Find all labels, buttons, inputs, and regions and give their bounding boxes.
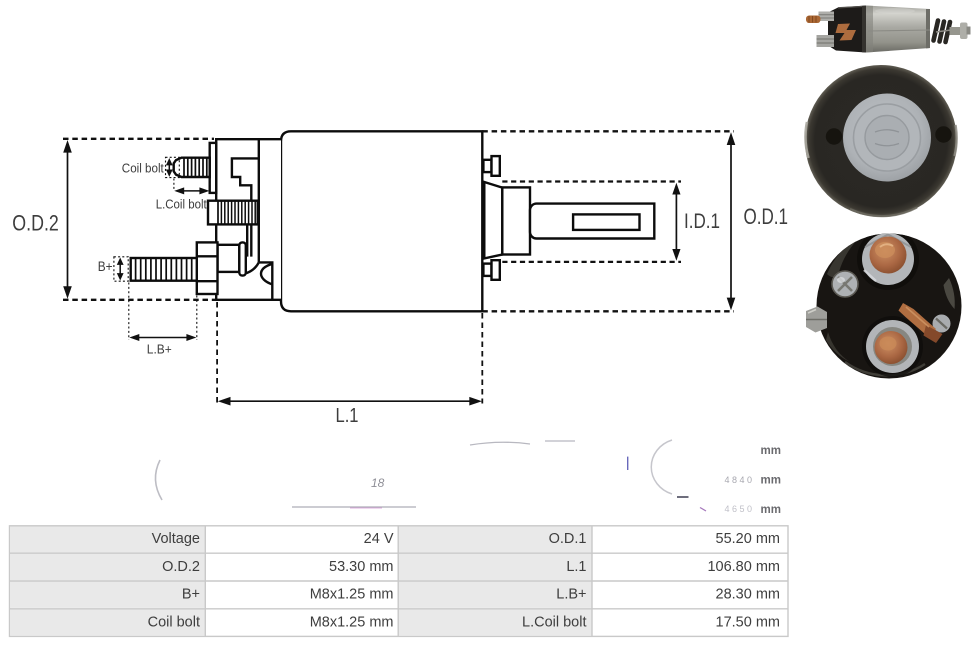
plunger bolt tab top wide xyxy=(492,156,500,176)
coil bolt stud Coil bolt xyxy=(174,158,210,177)
svg-text:mm: mm xyxy=(761,445,781,457)
L.B+ extension dotted left xyxy=(128,283,130,341)
cap inner step shape xyxy=(232,158,259,200)
housing shadow around top terminal xyxy=(857,228,919,290)
inner conductor bar xyxy=(247,224,251,256)
table texts xyxy=(148,531,780,630)
table grid lines xyxy=(10,526,789,637)
bottom terminal copper xyxy=(875,331,908,364)
housing highlight right xyxy=(944,278,955,309)
svg-text:B+: B+ xyxy=(98,259,113,274)
L.Coil bolt thread block xyxy=(208,201,258,225)
disc rim highlight bottom xyxy=(850,208,917,217)
disc face ring xyxy=(854,104,921,171)
svg-text:L.1: L.1 xyxy=(336,405,359,427)
svg-text:Voltage: Voltage xyxy=(152,531,200,547)
plunger shaft xyxy=(530,204,654,239)
svg-text:Coil bolt: Coil bolt xyxy=(148,614,200,630)
svg-text:M8x1.25 mm: M8x1.25 mm xyxy=(310,587,394,603)
thread block hatching xyxy=(221,201,255,224)
right small screw xyxy=(933,315,951,333)
dimension O.D.2 bottom dashed line xyxy=(63,299,215,301)
disc outer rim xyxy=(805,65,957,217)
svg-text:55.20 mm: 55.20 mm xyxy=(716,531,780,547)
svg-text:mm: mm xyxy=(761,504,781,516)
svg-text:4 8 4 0: 4 8 4 0 xyxy=(724,475,752,485)
solenoid main body cylinder xyxy=(281,131,482,311)
plunger bolt tab bottom wide xyxy=(492,260,500,280)
photo1 bottom bolt xyxy=(817,35,835,47)
top terminal silver nut xyxy=(862,233,914,285)
L.Coil bolt extension dotted right xyxy=(209,179,211,191)
svg-text:106.80 mm: 106.80 mm xyxy=(707,559,780,575)
B+ threaded stud xyxy=(131,258,197,281)
table outer background xyxy=(10,526,789,637)
copper strap xyxy=(899,303,937,338)
front cap housing outline xyxy=(216,139,281,300)
housing highlight upper-left xyxy=(827,239,858,277)
plunger bolt tab top narrow xyxy=(483,160,491,172)
svg-text:4 6 5 0: 4 6 5 0 xyxy=(724,504,752,514)
housing circle xyxy=(817,234,962,379)
coil bolt dotted box xyxy=(166,157,180,177)
faint underline xyxy=(292,506,416,508)
svg-text:18: 18 xyxy=(371,476,385,490)
housing bottom rim highlight xyxy=(845,362,925,375)
svg-text:L.Coil bolt: L.Coil bolt xyxy=(522,614,586,630)
arrow L.Coil bolt xyxy=(180,190,203,192)
faint mm texts xyxy=(761,445,781,516)
photo1 copper link xyxy=(836,24,857,41)
label cell backgrounds column 3 xyxy=(398,527,592,553)
photo1 black cap xyxy=(828,6,866,53)
svg-text:L.B+: L.B+ xyxy=(556,587,586,603)
arrow L.B+ xyxy=(137,337,189,339)
svg-text:M8x1.25 mm: M8x1.25 mm xyxy=(310,614,394,630)
B+ stud threads xyxy=(136,258,192,280)
coil bolt mounting plate xyxy=(210,143,217,193)
bottom terminal shadow ring xyxy=(862,316,923,377)
plunger collar rect xyxy=(502,187,530,254)
photo1 spring xyxy=(934,21,951,43)
svg-text:28.30 mm: 28.30 mm xyxy=(716,587,780,603)
svg-text:17.50 mm: 17.50 mm xyxy=(716,614,780,630)
contact washer xyxy=(239,242,246,275)
svg-text:L.Coil bolt: L.Coil bolt xyxy=(156,197,207,211)
top terminal copper xyxy=(870,237,907,274)
photo1 top bolt xyxy=(819,12,835,22)
shaft slot xyxy=(573,214,639,230)
disc face xyxy=(843,94,931,182)
disc left hole xyxy=(826,128,842,144)
arrow Coil bolt vertical xyxy=(168,163,170,172)
L.Coil bolt extension dotted left xyxy=(173,179,175,191)
plunger trapezoid cap xyxy=(484,182,502,258)
svg-text:mm: mm xyxy=(761,475,781,487)
photo1 cylinder xyxy=(866,6,930,53)
L.1 extension line left xyxy=(216,302,218,404)
arrow O.D.2 xyxy=(67,150,69,289)
svg-text:I.D.1: I.D.1 xyxy=(684,210,720,233)
boot corner curves xyxy=(259,262,273,299)
svg-text:O.D.1: O.D.1 xyxy=(744,204,789,229)
faint arc left xyxy=(155,460,162,500)
B+ inner contact rect xyxy=(218,245,240,272)
L.1 extension line right xyxy=(481,313,483,404)
left hex bolt xyxy=(806,307,827,333)
label cell backgrounds column 1 xyxy=(10,527,205,553)
boot lens bulge xyxy=(261,264,272,285)
B+ dotted box xyxy=(114,257,128,281)
washer-to-corner fillet xyxy=(246,262,259,273)
dimension O.D.1 bottom dashed line xyxy=(482,310,734,312)
dimension I.D.1 bottom dashed line xyxy=(502,261,681,263)
svg-text:53.30 mm: 53.30 mm xyxy=(329,559,393,575)
svg-text:24 V: 24 V xyxy=(364,531,394,547)
dimension O.D.2 top dashed line xyxy=(63,138,214,140)
photo1 copper stud xyxy=(806,16,821,24)
plunger bolt tab bottom narrow xyxy=(483,264,491,276)
left phillips screw xyxy=(832,271,858,297)
disc rim highlight left xyxy=(805,122,808,158)
L.B+ extension dotted right xyxy=(196,296,198,341)
B+ hex nut xyxy=(197,242,218,294)
cap inner vertical line B xyxy=(258,139,260,262)
photo1 shaft and washer xyxy=(950,27,963,35)
disc stamp marks xyxy=(875,130,899,146)
bottom terminal silver ring xyxy=(866,320,919,373)
disc boss xyxy=(865,116,909,160)
dimension O.D.1 top dashed line xyxy=(482,130,734,132)
svg-text:O.D.2: O.D.2 xyxy=(162,559,200,575)
arrow O.D.1 xyxy=(730,143,732,300)
arrow I.D.1 xyxy=(675,192,677,252)
arrow L.1 xyxy=(228,400,472,402)
disc rim highlight right xyxy=(955,125,957,156)
svg-text:O.D.2: O.D.2 xyxy=(12,211,59,236)
svg-text:L.1: L.1 xyxy=(566,559,586,575)
arrow B+ vertical xyxy=(119,263,121,275)
faint squiggle top right xyxy=(470,441,575,445)
svg-text:O.D.1: O.D.1 xyxy=(549,531,587,547)
disc right hole xyxy=(935,126,951,142)
svg-text:Coil bolt: Coil bolt xyxy=(122,162,164,176)
svg-text:B+: B+ xyxy=(182,587,200,603)
svg-text:L.B+: L.B+ xyxy=(147,342,172,357)
faint ellipse outline xyxy=(651,440,672,494)
dimension I.D.1 top dashed line xyxy=(502,180,681,182)
housing highlight lower-left xyxy=(826,332,850,362)
coil bolt threads xyxy=(184,158,207,177)
